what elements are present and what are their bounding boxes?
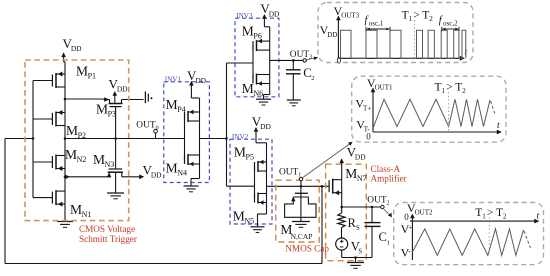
leader OUT3 to plot <box>307 57 319 60</box>
svg-text:M: M <box>234 144 246 159</box>
svg-text:Class-A: Class-A <box>371 164 401 174</box>
label MP3 <box>96 102 116 119</box>
label MN5 <box>233 208 254 225</box>
svg-text:>: > <box>413 10 420 22</box>
terminator (MP3 drain) <box>145 92 152 104</box>
label VT+ <box>355 97 371 113</box>
svg-text:OUT: OUT <box>367 196 387 206</box>
wire <box>264 95 270 99</box>
svg-text:T: T <box>475 207 482 219</box>
divider dotted (VOUT3) <box>414 20 416 58</box>
svg-text:t: t <box>497 121 500 131</box>
svg-text:2: 2 <box>462 87 466 95</box>
label 0 (VOUT1) <box>366 132 371 142</box>
svg-text:M: M <box>166 160 178 175</box>
svg-text:N7: N7 <box>357 174 367 183</box>
label V+ <box>401 222 413 236</box>
svg-text:M: M <box>345 166 357 181</box>
svg-text:S: S <box>358 249 362 256</box>
axis y (VOUT1) <box>371 88 376 133</box>
waveform VOUT2 continuation <box>524 231 531 248</box>
wire MN3 drain to VDD <box>122 176 140 178</box>
node OUT3 <box>303 59 306 62</box>
label MP4 <box>166 97 186 114</box>
axis x (VOUT2) <box>410 211 540 223</box>
wire INV2 output <box>267 185 330 187</box>
svg-text:DD: DD <box>327 31 337 39</box>
svg-text:t: t <box>537 211 540 221</box>
wire stack rail <box>64 62 66 221</box>
svg-text:N1: N1 <box>82 210 92 219</box>
transistor MN1 <box>52 190 65 207</box>
box INV3 <box>235 18 279 97</box>
svg-text:M: M <box>166 97 178 112</box>
svg-text:DD: DD <box>260 122 271 131</box>
label C1 <box>379 230 390 246</box>
ground <box>107 193 124 199</box>
svg-text:DD: DD <box>71 44 82 53</box>
svg-text:M: M <box>242 24 254 39</box>
svg-text:S: S <box>356 225 360 232</box>
box plot VOUT2 <box>394 203 544 265</box>
svg-text:P5: P5 <box>246 152 254 161</box>
wire feedback bottom <box>5 263 322 265</box>
power VDD (Class-A) <box>339 144 366 207</box>
label VT- <box>356 118 370 134</box>
wire INV3 gates <box>227 46 254 79</box>
power VDD (MN3 drain, right arrow) <box>139 163 162 180</box>
svg-text:M: M <box>242 81 254 96</box>
label INV3 <box>236 12 253 20</box>
svg-text:0: 0 <box>156 125 159 131</box>
transistor MN3 (horizontal) <box>107 169 123 177</box>
label fosc1 <box>365 15 384 27</box>
power VDD (Schmitt trigger) <box>61 36 82 62</box>
svg-text:DD: DD <box>269 9 280 18</box>
label OUT0 <box>136 120 158 131</box>
svg-text:DD: DD <box>355 153 366 162</box>
svg-text:M: M <box>65 147 77 162</box>
svg-text:M: M <box>66 123 78 138</box>
wire riser <box>226 63 228 186</box>
waveform VOUT2 triangle <box>412 229 523 256</box>
box NMOS Cap <box>276 180 319 242</box>
wire bottom rail <box>342 250 372 262</box>
label OUT1 <box>279 168 301 179</box>
divider dotted (VOUT1) <box>448 92 450 132</box>
power VDD (INV1) <box>187 68 207 179</box>
wire feedback left <box>5 139 33 264</box>
wire <box>191 179 200 186</box>
svg-text:N6: N6 <box>253 89 263 98</box>
svg-text:2: 2 <box>311 75 314 82</box>
ground <box>184 186 199 192</box>
wire INV1 output <box>200 138 227 140</box>
svg-text:T: T <box>422 10 429 22</box>
label C2 <box>303 66 314 82</box>
svg-text:CMOS Voltage: CMOS Voltage <box>79 224 135 234</box>
source VS <box>336 238 348 250</box>
svg-text:M: M <box>93 152 105 167</box>
dim arrows fosc1 <box>366 27 390 31</box>
svg-text:Amplifier: Amplifier <box>371 174 407 184</box>
label MN4 <box>166 160 187 177</box>
box CMOS Voltage Schmitt Trigger <box>25 60 129 221</box>
label MN6 <box>242 81 263 98</box>
svg-text:P1: P1 <box>88 72 96 81</box>
power VDD (INV2) <box>252 114 272 214</box>
svg-text:Schmitt Trigger: Schmitt Trigger <box>79 234 137 244</box>
transistor MN4 <box>185 154 200 166</box>
ground <box>292 222 310 228</box>
svg-text:>: > <box>487 207 494 219</box>
label 0 (VOUT2) <box>404 212 409 222</box>
svg-text:M: M <box>70 202 82 217</box>
svg-text:N5: N5 <box>244 216 254 225</box>
wire MN3 bulk to ground <box>115 172 117 192</box>
svg-text:DD: DD <box>151 171 162 180</box>
node OUT2 <box>381 205 384 208</box>
leader OUT1 to plot <box>303 142 353 178</box>
label NMOS Cap <box>285 244 329 254</box>
transistor MP1 <box>52 72 65 89</box>
svg-text:1: 1 <box>298 172 301 178</box>
moscap MN,CAP <box>285 186 316 221</box>
wire <box>258 214 267 226</box>
svg-text:DD: DD <box>117 85 128 94</box>
label T1>T2 (VOUT3) <box>402 10 434 24</box>
axis x (VOUT3) <box>338 48 467 61</box>
svg-text:1: 1 <box>409 15 413 23</box>
wire INV2 gates <box>227 167 255 199</box>
svg-text:1: 1 <box>387 239 390 246</box>
axis y (VOUT2) <box>410 214 415 261</box>
label VOUT1 <box>367 76 393 92</box>
transistor MN6 <box>253 74 270 86</box>
node OUT0 <box>154 129 158 138</box>
transistor MP5 <box>255 160 267 172</box>
label 0 (VOUT3) <box>337 56 342 66</box>
svg-text:0: 0 <box>337 56 342 66</box>
label MP5 <box>234 144 254 161</box>
svg-text:M: M <box>76 64 88 79</box>
label VOUT2 <box>407 201 433 217</box>
box INV2 <box>230 139 272 224</box>
wire OUT0 run <box>65 138 185 140</box>
label MP1 <box>76 64 96 81</box>
box plot VOUT3 <box>318 3 473 63</box>
svg-text:P6: P6 <box>253 32 261 41</box>
label Vs <box>351 240 363 256</box>
svg-text:0: 0 <box>404 212 409 222</box>
power VDD (INV3) <box>260 1 280 94</box>
axis y (VOUT3) <box>336 16 341 59</box>
waveform VOUT1 continuation <box>491 101 495 114</box>
svg-text:2: 2 <box>387 200 390 206</box>
label OUT3 <box>290 50 312 61</box>
transistor MN2 <box>52 155 65 172</box>
svg-text:INV1: INV1 <box>165 75 182 83</box>
svg-text:T+: T+ <box>363 104 371 112</box>
label MP2 <box>66 123 86 140</box>
box INV1 <box>164 82 210 183</box>
divider dotted (VOUT2) <box>488 218 490 256</box>
transistor MN7 <box>329 179 342 196</box>
svg-text:osc,2: osc,2 <box>443 20 458 28</box>
transistor MN5 <box>255 193 267 205</box>
label CMOS Voltage Schmitt Trigger <box>79 224 137 244</box>
label MN,CAP <box>280 222 312 241</box>
label T1>T2 (VOUT1) <box>435 82 467 96</box>
svg-text:1: 1 <box>442 87 446 95</box>
dim arrows fosc2 <box>442 27 459 31</box>
transistor MP3 (horizontal) <box>104 97 144 106</box>
wire MN1-MN2 node to MN3 source <box>65 175 109 180</box>
svg-text:NMOS Cap: NMOS Cap <box>285 244 329 254</box>
svg-text:OUT1: OUT1 <box>375 84 393 92</box>
svg-text:1: 1 <box>482 213 486 221</box>
transistor MP4 <box>185 110 200 122</box>
svg-text:INV2: INV2 <box>232 133 249 141</box>
svg-text:2: 2 <box>503 213 507 221</box>
ground <box>287 100 301 106</box>
svg-text:M: M <box>96 102 108 117</box>
transistor MP2 <box>52 110 65 127</box>
label OUT2 <box>367 196 389 207</box>
svg-text:C: C <box>379 230 387 244</box>
svg-text:T: T <box>402 10 409 22</box>
wire gate bus <box>33 81 52 198</box>
svg-text:OUT: OUT <box>290 50 310 60</box>
svg-text:T: T <box>496 207 503 219</box>
wire feedback riser <box>321 186 323 263</box>
box Class-A Amplifier <box>326 164 367 261</box>
label fosc2 <box>439 15 458 27</box>
svg-text:DD: DD <box>195 76 206 85</box>
label INV2 <box>232 133 249 141</box>
ground <box>57 222 73 228</box>
box plot VOUT1 <box>352 76 506 142</box>
svg-text:P3: P3 <box>108 110 116 119</box>
axis x (VOUT1) <box>373 121 502 134</box>
svg-text:OUT2: OUT2 <box>415 209 433 217</box>
resistor RS <box>338 207 345 238</box>
label MN2 <box>65 147 86 164</box>
wire MN7 source to OUT2 <box>342 206 381 208</box>
wire INV3 output <box>270 59 303 61</box>
ground <box>251 227 265 233</box>
label MN7 <box>345 166 366 183</box>
wire MP1-MP2 node to MP3 <box>65 98 104 100</box>
label MN1 <box>70 202 91 219</box>
waveform VOUT1 triangle <box>374 99 491 127</box>
label MN3 <box>93 152 114 169</box>
wire INV1 gates <box>184 117 186 160</box>
wire MP3 gate / MN3 gate riser <box>115 107 117 169</box>
svg-text:OUT: OUT <box>136 120 156 130</box>
svg-text:N,CAP: N,CAP <box>291 232 313 241</box>
leader OUT2 to plot <box>384 209 392 217</box>
svg-text:N2: N2 <box>77 155 87 164</box>
svg-text:2: 2 <box>429 15 433 23</box>
svg-text:OUT: OUT <box>279 168 299 178</box>
svg-text:OUT3: OUT3 <box>341 12 359 20</box>
svg-text:+: + <box>408 224 412 232</box>
svg-text:T: T <box>435 82 442 94</box>
svg-text:P4: P4 <box>177 105 185 114</box>
label VDD level <box>320 23 338 39</box>
label V- <box>401 246 412 260</box>
label Rs <box>348 216 361 232</box>
svg-text:INV3: INV3 <box>236 12 253 20</box>
label INV1 <box>165 75 182 83</box>
capacitor C2 <box>286 60 301 99</box>
label VOUT3 <box>334 4 360 20</box>
svg-text:>: > <box>446 82 453 94</box>
svg-text:N4: N4 <box>177 168 187 177</box>
node OUT1 <box>299 178 302 187</box>
label Class-A Amplifier <box>371 164 407 184</box>
ground <box>347 263 364 269</box>
svg-text:N3: N3 <box>105 160 115 169</box>
svg-text:0: 0 <box>366 132 371 142</box>
svg-text:T: T <box>455 82 462 94</box>
svg-text:osc,1: osc,1 <box>369 20 384 28</box>
ground <box>256 99 271 105</box>
transistor MP6 <box>253 39 270 51</box>
label MP6 <box>242 24 262 41</box>
capacitor C1 <box>365 207 381 258</box>
waveform VOUT3 square wave <box>338 30 465 58</box>
label T1>T2 (VOUT2) <box>475 207 507 221</box>
power VDD (MP3 bulk) <box>109 77 129 104</box>
svg-text:M: M <box>233 208 245 223</box>
